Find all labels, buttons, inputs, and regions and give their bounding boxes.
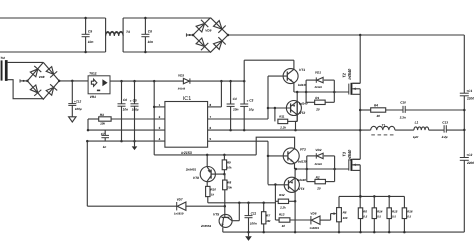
wire filter to bridge bottom [123,51,210,53]
svg-text:VD2: VD2 [315,148,321,152]
svg-text:7812: 7812 [89,72,97,76]
svg-text:R5: R5 [363,209,367,213]
svg-text:R10: R10 [210,188,216,192]
wire ground rail [223,231,464,233]
wire VT4 collector to ground [294,201,296,232]
pin 2 [111,118,165,120]
wire gate drive line lower [295,168,349,170]
svg-text:10k: 10k [227,166,232,170]
svg-text:L1: L1 [415,120,419,124]
svg-text:T1: T1 [382,123,386,127]
svg-text:R7: R7 [266,213,270,217]
wire VD8 to regulator [59,80,88,82]
wire COM pin4 down to protection line [86,141,88,206]
wire HO base riser [267,76,269,119]
svg-text:30: 30 [377,114,381,118]
svg-text:10µ: 10µ [249,108,254,112]
svg-text:bd139: bd139 [298,160,307,164]
svg-text:ll4148: ll4148 [178,88,186,91]
svg-text:C13: C13 [442,120,448,124]
svg-text:10: 10 [282,224,286,228]
pin 3 [88,129,165,131]
wire Tr2 to VD8 top [8,61,44,63]
wire T1 to L1 [395,129,414,131]
wire mains input bottom [0,51,106,53]
pin 6 [208,129,371,131]
resistor R15 0.5 [387,208,391,219]
svg-text:5: 5 [210,137,212,141]
svg-text:R15: R15 [392,209,398,213]
capacitor C11 100n [248,203,250,216]
wire +12V rail [110,80,183,82]
wire gate drive line upper [294,91,349,93]
svg-text:2.2k: 2.2k [279,206,286,210]
svg-text:20: 20 [316,187,321,191]
svg-text:2: 2 [159,115,161,119]
capacitor C12 100u with chassis ground [71,81,73,104]
svg-text:VT3: VT3 [300,148,306,152]
svg-text:+C1: +C1 [466,89,472,93]
svg-text:VT2: VT2 [299,111,305,115]
diode VD1 ll4148 [305,80,307,102]
svg-text:C9: C9 [88,30,92,34]
svg-text:VD7: VD7 [177,197,183,201]
wire pin8 riser VB [220,81,222,107]
wire T2 source to midpoint [359,89,361,159]
wire T3 source down [352,164,360,166]
svg-text:R6: R6 [343,211,347,215]
svg-text:20: 20 [315,107,320,111]
svg-text:VD1: VD1 [315,70,321,74]
svg-text:1n5819: 1n5819 [174,211,184,215]
svg-text:C11: C11 [251,211,257,215]
svg-text:R9: R9 [227,161,231,165]
svg-text:+C2: +C2 [466,153,472,157]
svg-text:ll4148: ll4148 [315,86,323,89]
resistor R5 0.5 [358,208,362,219]
potentiometer R6 100 [337,208,342,222]
resistor R2 20 [315,179,326,183]
diode VD7 1n5819 [176,202,178,210]
svg-text:1n: 1n [103,145,107,149]
svg-text:C5: C5 [133,98,137,102]
svg-text:R1: R1 [315,96,319,100]
svg-text:10n: 10n [148,40,154,44]
svg-text:T4: T4 [126,30,130,34]
svg-text:ir2153: ir2153 [181,151,191,155]
svg-text:VD8: VD8 [39,75,45,79]
svg-text:+C12: +C12 [74,100,82,104]
pin 4 [87,140,165,142]
diode VD6 1n5819 [310,216,312,224]
wire bias rail A [208,202,276,204]
wire VCC riser to pin 1 and under-IC line [153,81,155,155]
resistor R3 10k [99,117,111,121]
transistor VT5 2n5551 protection [219,214,232,227]
ground at C11 [248,232,250,236]
svg-text:10n: 10n [123,107,129,111]
capacitor C2 2200u (clipped at edge) [460,157,469,159]
transistor VT8 2n5401 [200,167,215,182]
wire protection line B with VD7 [87,205,176,207]
MOSFET T3 irf840 low side [348,160,350,171]
svg-text:VD9: VD9 [205,28,211,32]
capacitor C13 2.2u [429,129,444,131]
wire VB rail after VD3 [190,80,244,82]
svg-text:10n: 10n [88,40,94,44]
transistor VT1 bd139 [283,69,298,84]
transistor VT2 bd140 [286,101,301,116]
resistor R8 20k [223,180,227,190]
svg-text:C3: C3 [249,98,253,102]
capacitor C9 10n [85,18,87,34]
ground at C5 [134,141,136,146]
svg-text:2.2µ: 2.2µ [441,135,448,139]
capacitor C5 100u [134,81,136,104]
svg-text:4: 4 [159,137,161,141]
wire current sense rail [339,195,404,197]
capacitor C8 10n [144,18,146,34]
svg-text:VD3: VD3 [178,73,184,77]
pin 7 [208,118,268,120]
svg-text:VR1: VR1 [90,95,97,99]
svg-text:10n: 10n [233,107,239,111]
svg-text:C4: C4 [233,97,237,101]
capacitor C3 10u bootstrap [243,60,245,104]
svg-text:irf840: irf840 [347,149,352,161]
svg-text:0.5: 0.5 [377,215,381,219]
wire VB to VT1 collector [244,59,294,61]
svg-text:10k: 10k [100,122,105,126]
svg-text:2200µ: 2200µ [466,161,474,165]
svg-text:R2: R2 [316,175,320,179]
svg-text:0.5: 0.5 [363,215,367,219]
svg-text:VT5: VT5 [213,212,219,216]
diode VD2 ll4148 [306,156,308,182]
svg-text:R12: R12 [279,193,285,197]
svg-text:R3: R3 [100,113,104,117]
pin 1 [154,106,165,108]
resistor R1 20 [315,100,326,104]
wire VT2 collector to VS [296,115,298,122]
wire Tr2 to VD8 bottom [8,80,44,99]
svg-text:T2: T2 [342,72,347,77]
svg-text:R8: R8 [227,181,231,185]
svg-text:0.5: 0.5 [407,215,411,219]
bridge rectifier VD8 [27,62,59,99]
capacitor C4 10n bootstrap [230,81,232,104]
resistor R12 2.2k [274,185,276,221]
svg-text:100µ: 100µ [75,107,82,111]
wire VT5 collector riser [232,220,239,222]
AC mark at VD8 left vertex [20,80,28,82]
svg-text:Tr2: Tr2 [0,56,5,60]
resistor R11 2.2k [274,108,276,121]
svg-text:R11: R11 [279,115,285,119]
svg-text:1k: 1k [211,193,215,197]
wire right output rail [463,35,465,93]
diode VD3 ll4148 bootstrap [183,78,189,83]
svg-text:bd140: bd140 [297,178,306,182]
svg-text:7: 7 [210,115,212,119]
svg-text:2n5551: 2n5551 [200,224,212,228]
capacitor C7 1n [104,130,106,135]
svg-text:VT8: VT8 [193,176,199,180]
regulator VR1 7812 [88,76,110,94]
inductor L1 1uH [414,127,429,130]
resistor R14 0.5 [372,208,376,219]
svg-text:T3: T3 [342,151,347,156]
wire VCC to VT3 collector [256,137,294,155]
svg-text:R13: R13 [279,212,285,216]
svg-text:0.5: 0.5 [392,215,396,219]
resistor R9 10k [222,160,226,170]
resistor R13 10 [275,219,279,221]
svg-text:IC1: IC1 [183,96,191,102]
AC mark at VD9 left vertex [186,34,193,36]
transistor VT3 bd139 [283,148,299,164]
svg-text:1µH: 1µH [413,135,419,139]
svg-text:R16: R16 [407,209,413,213]
svg-text:VD6: VD6 [310,211,316,215]
pin 5 [208,140,268,142]
T1 core dashes [371,134,375,136]
wire LO base riser [267,141,269,184]
resistor R10 1k [206,186,210,196]
wire filter to bridge top [123,17,210,19]
choke T4 [105,18,107,52]
capacitor C1 2200u (clipped at edge) [460,92,469,94]
IC1 IR2153 body [165,102,208,148]
wire VD6 to R6 wiper with arrow [330,214,332,221]
resistor R4 30 snubber [360,109,371,111]
svg-text:C10: C10 [400,101,406,105]
svg-text:2n5401: 2n5401 [185,167,197,171]
resistor R7 1M [262,212,266,224]
svg-text:6: 6 [210,126,212,130]
transformer T1 primary [371,126,395,130]
svg-text:2.2k: 2.2k [279,125,286,129]
svg-text:2200µ: 2200µ [466,97,474,101]
svg-text:1n5819: 1n5819 [309,226,319,230]
svg-text:100µ: 100µ [132,108,139,112]
svg-text:C8: C8 [148,30,152,34]
svg-text:R4: R4 [374,103,378,107]
pin 8 [208,106,222,108]
svg-text:R14: R14 [377,209,383,213]
svg-text:irf840: irf840 [347,68,352,80]
svg-text:VT4: VT4 [298,187,304,191]
resistor R16 0.5 [402,208,406,219]
svg-text:+: + [130,99,132,103]
wire +DC rail to right edge [228,34,464,36]
svg-text:C6: C6 [123,98,127,102]
transistor VT4 bd140 [284,177,299,192]
svg-text:ll4148: ll4148 [315,163,323,166]
svg-text:1: 1 [159,103,161,107]
MOSFET T2 irf840 high side [348,84,350,95]
svg-text:1M: 1M [266,219,271,223]
svg-text:8: 8 [210,103,212,107]
wire mains input top [0,17,106,19]
capacitor C6 10n [121,81,123,104]
svg-text:3: 3 [159,126,161,130]
svg-text:100n: 100n [250,222,257,226]
svg-text:100: 100 [343,216,348,220]
svg-text:20k: 20k [226,186,232,190]
capacitor C10 3.3n snubber [402,106,404,113]
svg-text:VT1: VT1 [299,68,305,72]
bridge rectifier VD9 [193,18,228,53]
wire T3 drain to midpoint [352,158,360,160]
svg-text:C7: C7 [101,132,105,136]
wire T2 drain to rail [352,82,360,84]
svg-text:3.3n: 3.3n [400,116,406,120]
